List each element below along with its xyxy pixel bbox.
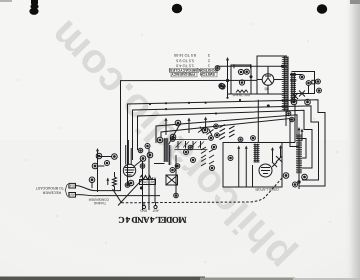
capacitor C41 bbox=[145, 144, 150, 149]
wire box link bbox=[282, 104, 295, 143]
svg-text:ANT: ANT bbox=[69, 193, 75, 197]
svg-text:TO BROADCAST: TO BROADCAST bbox=[35, 186, 64, 190]
scan specks bbox=[18, 24, 338, 263]
capacitor C1 bbox=[238, 69, 243, 74]
trimmer T2 bbox=[198, 127, 205, 134]
switch S1 rotor bbox=[306, 81, 311, 86]
capacitor C4 bbox=[219, 83, 224, 88]
svg-text:2: 2 bbox=[208, 59, 210, 63]
node dots on bus bbox=[149, 97, 241, 115]
capacitor C17 bbox=[147, 152, 153, 158]
wire arrows up bbox=[273, 147, 281, 162]
punch hole middle bbox=[172, 4, 182, 14]
wire bus loop 6 bbox=[161, 119, 299, 147]
wire grid leads bbox=[239, 148, 253, 187]
wire bus drop bbox=[257, 100, 259, 143]
capacitor C26 bbox=[212, 145, 217, 150]
brace bbox=[65, 184, 68, 196]
svg-text:3: 3 bbox=[208, 53, 210, 57]
svg-text:CONDENSER: CONDENSER bbox=[88, 197, 109, 201]
capacitor C36 bbox=[251, 136, 256, 141]
svg-text:(MEGACYCLES): (MEGACYCLES) bbox=[168, 68, 198, 72]
wire bus loop 3 bbox=[133, 106, 319, 180]
switch S2 contact bbox=[292, 93, 298, 99]
svg-text:RECEIVER: RECEIVER bbox=[42, 191, 61, 195]
capacitor C24 bbox=[184, 150, 189, 155]
capacitor C37 bbox=[286, 111, 291, 116]
wire L3 bottom bbox=[298, 174, 300, 189]
svg-text:1: 1 bbox=[208, 64, 210, 68]
oscillator transformer label bbox=[231, 93, 250, 97]
watermark bbox=[40, 11, 301, 279]
svg-text:POSITION: POSITION bbox=[199, 68, 217, 72]
wire verticals center bbox=[143, 148, 177, 211]
wire bus loop 5 bbox=[156, 115, 306, 158]
ANT output terminal bbox=[155, 202, 157, 206]
wire ANT lead bbox=[76, 195, 160, 196]
tube V3 bbox=[259, 164, 272, 177]
oscillator label bbox=[255, 187, 279, 191]
tuning label bbox=[88, 197, 109, 205]
capacitor C10 bbox=[283, 173, 289, 179]
capacitor C46 bbox=[125, 183, 130, 188]
capacitor C42 bbox=[138, 148, 143, 153]
capacitor C34 bbox=[215, 133, 220, 138]
capacitor C43 bbox=[140, 164, 145, 169]
capacitor C22 bbox=[157, 137, 163, 143]
wire switch leads bbox=[290, 75, 316, 94]
svg-text:MODEL 4 AND 4 C: MODEL 4 AND 4 C bbox=[119, 215, 187, 225]
svg-text:TUNING: TUNING bbox=[93, 201, 106, 205]
capacitor C27 bbox=[210, 166, 215, 171]
node dot bbox=[226, 79, 228, 81]
wire GND lead bbox=[76, 186, 121, 191]
capacitor C40 bbox=[170, 168, 175, 173]
svg-text:8.5 TO 16.00: 8.5 TO 16.00 bbox=[174, 53, 196, 57]
switch S6 bbox=[201, 147, 206, 166]
capacitor C5 bbox=[316, 79, 321, 84]
band switch box bbox=[292, 72, 315, 94]
punch hole left bbox=[29, 0, 38, 15]
oscillator tube box bbox=[257, 56, 287, 94]
outer wire loop bbox=[121, 80, 258, 190]
svg-text:OSC.TRANS.: OSC.TRANS. bbox=[231, 93, 250, 97]
capacitor C38 bbox=[290, 117, 295, 122]
capacitor C6 bbox=[317, 88, 322, 93]
coil L2 bbox=[254, 144, 260, 163]
wire arrow E bbox=[301, 131, 303, 141]
capacitor C11 bbox=[302, 174, 308, 180]
tube V1 bbox=[262, 74, 274, 86]
svg-text:5.5 TO 9.5: 5.5 TO 9.5 bbox=[176, 59, 194, 63]
switch S1 contact bbox=[300, 75, 305, 80]
IF tube V2 bbox=[123, 164, 135, 176]
wire arrow D bbox=[107, 180, 109, 185]
resistor R1 label box bbox=[140, 180, 156, 185]
frequency table bbox=[168, 53, 218, 77]
wire diagonal bbox=[169, 124, 181, 145]
capacitor C3 bbox=[239, 80, 244, 85]
IF coil L5 bbox=[168, 145, 171, 165]
capacitor C23 bbox=[202, 127, 208, 133]
dial pointer bbox=[118, 178, 144, 206]
trimmer T3 bbox=[207, 129, 214, 136]
switch S5 contact bbox=[272, 162, 277, 167]
trimmer box bbox=[166, 175, 178, 185]
wire arrow C bbox=[205, 119, 207, 130]
capacitor C18 bbox=[128, 180, 134, 186]
svg-text:GND: GND bbox=[140, 208, 148, 212]
switch S7 bbox=[209, 149, 214, 164]
wire left vertical bbox=[97, 150, 99, 192]
ANT terminal bbox=[69, 193, 76, 198]
capacitor C33 bbox=[214, 124, 219, 129]
GND terminal bbox=[69, 183, 76, 188]
capacitor C31 bbox=[170, 137, 175, 142]
wire C19 stub bbox=[91, 183, 93, 188]
tube V1 label 38 bbox=[264, 87, 269, 92]
capacitor C44 bbox=[175, 164, 180, 169]
capacitor C7 bbox=[291, 99, 297, 105]
switch S9 bbox=[229, 126, 235, 137]
trimmer pad bbox=[312, 80, 315, 84]
IF coil L4 bbox=[163, 138, 168, 162]
capacitor C8 bbox=[305, 99, 311, 105]
capacitor C13 bbox=[112, 154, 118, 160]
pointer tail bbox=[113, 189, 122, 203]
capacitor C9 bbox=[220, 84, 225, 89]
transformer T1 core bbox=[284, 57, 289, 112]
punch hole right bbox=[317, 4, 327, 14]
capacitor C47 bbox=[188, 145, 193, 150]
transformer T1 secondary bbox=[290, 73, 296, 104]
switch S3 contact bbox=[299, 91, 305, 97]
resistor R2 bbox=[113, 172, 117, 191]
wire L3 top arrow bbox=[298, 129, 300, 134]
node dots bbox=[281, 65, 283, 67]
capacitor C32 bbox=[209, 136, 214, 141]
mechanical link dashed bbox=[122, 178, 283, 203]
wire bus loop 2 bbox=[128, 100, 326, 186]
GND output terminal bbox=[143, 203, 145, 207]
wire stub A bbox=[98, 156, 112, 158]
wire bus loop 4 bbox=[138, 110, 313, 168]
svg-text:ANT: ANT bbox=[152, 208, 158, 212]
padder sub-box bbox=[231, 65, 251, 94]
svg-text:GND: GND bbox=[67, 183, 75, 187]
wire comb drop bbox=[285, 112, 287, 127]
to broadcast receiver label bbox=[35, 186, 64, 195]
capacitor C35 bbox=[238, 137, 243, 142]
transformer T1 primary bbox=[282, 57, 288, 112]
capacitor C21 bbox=[175, 120, 181, 126]
node dot bbox=[267, 105, 269, 107]
oscillator coil L3 core bbox=[297, 135, 302, 174]
wire arrow A bbox=[165, 120, 167, 135]
node dot bbox=[140, 187, 142, 189]
oscillator coil L3 bbox=[296, 134, 302, 174]
mixer tube box bbox=[223, 143, 282, 188]
wire V1 leads bbox=[257, 66, 284, 94]
switch S8 bbox=[220, 125, 226, 140]
capacitor C28 bbox=[228, 156, 233, 161]
IF coil L4 core bbox=[164, 139, 168, 162]
svg-text:OSCILLATOR: OSCILLATOR bbox=[255, 187, 279, 191]
coil L1 bbox=[236, 90, 248, 93]
capacitor C19 bbox=[89, 177, 95, 183]
wire arrow B bbox=[188, 120, 190, 133]
capacitor C16 bbox=[140, 156, 146, 162]
capacitor C45 bbox=[174, 193, 179, 198]
capacitor C12 bbox=[293, 182, 298, 187]
wire V2 leads bbox=[126, 140, 142, 166]
gang tuning capacitor bbox=[175, 140, 208, 150]
capacitor C25 bbox=[191, 158, 196, 163]
switch S4 contact bbox=[276, 156, 282, 162]
coil L2 core bbox=[254, 144, 259, 163]
capacitor C14 bbox=[92, 163, 98, 169]
resistor R1 bbox=[140, 176, 153, 180]
title MODEL 4 AND 4 C bbox=[119, 215, 187, 225]
capacitor C20 bbox=[170, 134, 176, 140]
wire plate lead bbox=[154, 163, 165, 165]
capacitor C30 bbox=[215, 66, 220, 71]
capacitor C2 bbox=[244, 69, 249, 74]
wire antenna lead bbox=[227, 60, 229, 98]
svg-text:1.5 TO 4.0: 1.5 TO 4.0 bbox=[176, 64, 194, 68]
node J1 bbox=[298, 181, 300, 183]
svg-text:38: 38 bbox=[264, 87, 269, 92]
capacitor C39 bbox=[105, 161, 110, 166]
wire stub B bbox=[98, 165, 105, 167]
node ticks on grid line bbox=[234, 64, 251, 68]
capacitor C15 bbox=[96, 153, 102, 159]
